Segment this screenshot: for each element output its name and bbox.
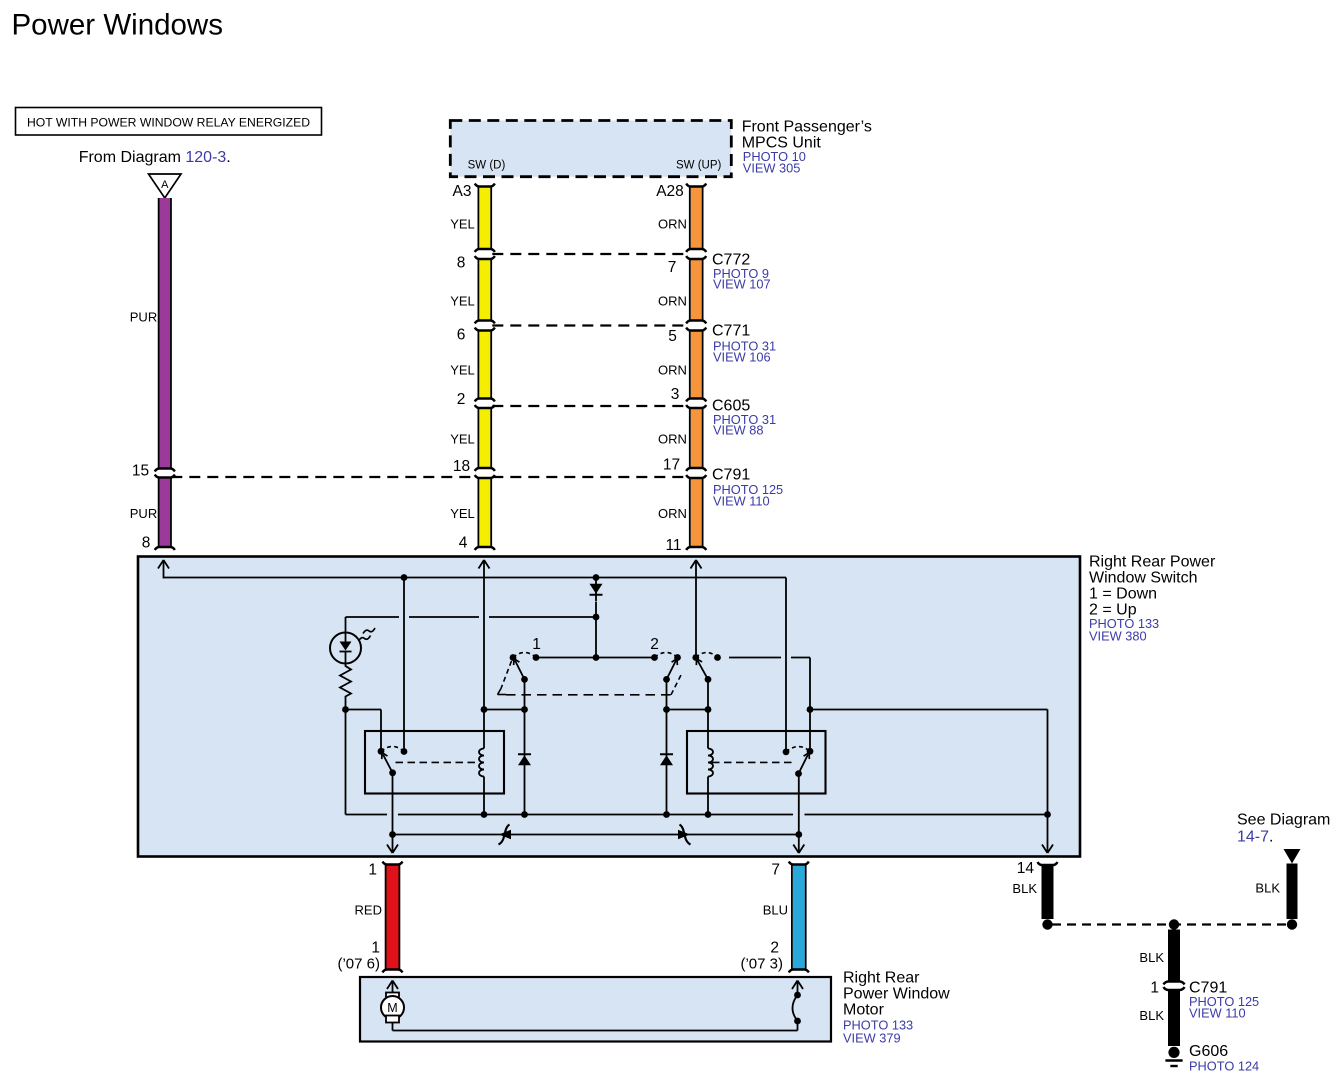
svg-text:PUR: PUR bbox=[130, 310, 157, 325]
svg-text:2: 2 bbox=[650, 636, 659, 653]
svg-text:5: 5 bbox=[668, 328, 677, 345]
svg-text:2: 2 bbox=[457, 391, 466, 408]
svg-text:PUR: PUR bbox=[130, 506, 157, 521]
svg-text:VIEW 110: VIEW 110 bbox=[713, 494, 770, 509]
svg-text:A3: A3 bbox=[453, 183, 472, 200]
svg-text:C791: C791 bbox=[712, 467, 750, 484]
svg-text:ORN: ORN bbox=[658, 294, 687, 309]
svg-text:1: 1 bbox=[532, 636, 541, 653]
svg-text:4: 4 bbox=[459, 535, 468, 552]
svg-text:HOT WITH POWER WINDOW RELAY EN: HOT WITH POWER WINDOW RELAY ENERGIZED bbox=[27, 116, 310, 130]
svg-text:15: 15 bbox=[132, 463, 149, 480]
svg-text:YEL: YEL bbox=[450, 432, 475, 447]
svg-text:7: 7 bbox=[668, 259, 677, 276]
svg-text:From Diagram 120-3.: From Diagram 120-3. bbox=[79, 149, 231, 166]
svg-text:Window Switch: Window Switch bbox=[1089, 570, 1197, 587]
svg-text:VIEW 88: VIEW 88 bbox=[713, 423, 764, 438]
svg-text:18: 18 bbox=[453, 458, 470, 475]
svg-text:3: 3 bbox=[671, 386, 680, 403]
svg-text:Power Windows: Power Windows bbox=[12, 9, 223, 42]
svg-text:ORN: ORN bbox=[658, 363, 687, 378]
svg-text:A: A bbox=[161, 179, 169, 191]
svg-text:8: 8 bbox=[142, 535, 151, 552]
svg-text:Right Rear Power: Right Rear Power bbox=[1089, 554, 1216, 571]
svg-text:17: 17 bbox=[663, 457, 680, 474]
svg-text:Motor: Motor bbox=[843, 1002, 885, 1019]
svg-text:(’07 6): (’07 6) bbox=[337, 956, 380, 973]
svg-text:VIEW 110: VIEW 110 bbox=[1189, 1006, 1246, 1021]
svg-text:(’07 3): (’07 3) bbox=[740, 956, 783, 973]
svg-text:11: 11 bbox=[665, 537, 681, 554]
svg-text:VIEW 107: VIEW 107 bbox=[713, 277, 771, 292]
svg-text:A28: A28 bbox=[656, 183, 684, 200]
svg-text:See Diagram: See Diagram bbox=[1237, 812, 1330, 829]
svg-text:BLK: BLK bbox=[1139, 1008, 1164, 1023]
svg-text:M: M bbox=[387, 1001, 397, 1015]
svg-text:YEL: YEL bbox=[450, 217, 475, 232]
svg-text:Right Rear: Right Rear bbox=[843, 970, 920, 987]
svg-text:ORN: ORN bbox=[658, 432, 687, 447]
svg-text:PHOTO 124: PHOTO 124 bbox=[1189, 1059, 1259, 1074]
svg-text:VIEW 106: VIEW 106 bbox=[713, 350, 771, 365]
svg-text:G606: G606 bbox=[1189, 1043, 1228, 1060]
svg-text:1: 1 bbox=[371, 940, 380, 957]
svg-text:7: 7 bbox=[771, 862, 780, 879]
svg-text:ORN: ORN bbox=[658, 217, 687, 232]
svg-text:SW (D): SW (D) bbox=[468, 160, 506, 172]
svg-text:1: 1 bbox=[368, 862, 377, 879]
svg-text:VIEW 305: VIEW 305 bbox=[743, 161, 801, 176]
svg-text:BLK: BLK bbox=[1012, 881, 1037, 896]
svg-text:YEL: YEL bbox=[450, 294, 475, 309]
svg-text:6: 6 bbox=[457, 327, 466, 344]
svg-text:14-7.: 14-7. bbox=[1237, 829, 1273, 846]
svg-text:2: 2 bbox=[770, 940, 779, 957]
svg-text:Power Window: Power Window bbox=[843, 986, 950, 1003]
svg-text:BLK: BLK bbox=[1139, 950, 1164, 965]
svg-text:1: 1 bbox=[1150, 980, 1159, 997]
svg-text:BLU: BLU bbox=[763, 903, 788, 918]
svg-text:C771: C771 bbox=[712, 323, 750, 340]
svg-text:1 = Down: 1 = Down bbox=[1089, 586, 1157, 603]
svg-text:BLK: BLK bbox=[1255, 881, 1280, 896]
svg-text:SW (UP): SW (UP) bbox=[676, 160, 722, 172]
svg-text:YEL: YEL bbox=[450, 506, 475, 521]
svg-text:RED: RED bbox=[355, 903, 382, 918]
svg-text:VIEW 379: VIEW 379 bbox=[843, 1031, 901, 1046]
svg-text:ORN: ORN bbox=[658, 506, 687, 521]
svg-text:8: 8 bbox=[457, 255, 466, 272]
svg-text:VIEW 380: VIEW 380 bbox=[1089, 629, 1147, 644]
svg-text:Front Passenger’s: Front Passenger’s bbox=[742, 119, 872, 136]
svg-text:YEL: YEL bbox=[450, 363, 475, 378]
svg-text:14: 14 bbox=[1017, 860, 1035, 877]
